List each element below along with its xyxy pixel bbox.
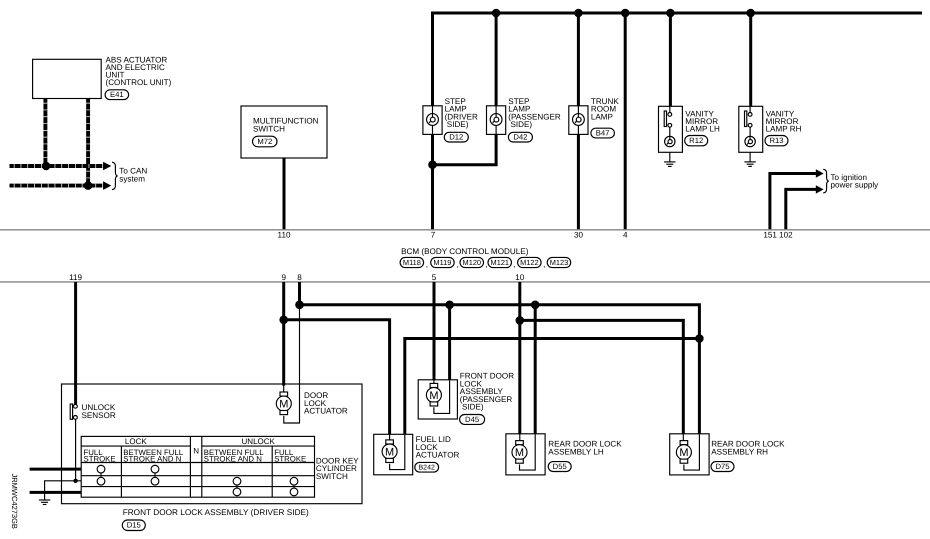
svg-text:D15: D15 — [127, 521, 141, 530]
door key cylinder switch label — [316, 456, 359, 480]
arrowhead ignition 2 — [816, 185, 824, 193]
connector D15 — [122, 520, 145, 531]
junction CAN-H — [42, 162, 51, 171]
connector E41 — [105, 90, 129, 100]
connector M121 — [488, 257, 512, 267]
svg-text:STROKE: STROKE — [274, 454, 306, 463]
svg-text:D12: D12 — [449, 133, 463, 142]
D45 label — [460, 372, 514, 412]
junction bus D42 — [492, 9, 501, 18]
wire pin 9 — [282, 282, 285, 386]
wire D45 return — [448, 305, 451, 380]
connector M72 — [253, 136, 278, 147]
wire trunk room lamp to pin 30 — [577, 13, 580, 230]
junction pin8 fuel-lid return — [695, 334, 704, 343]
D55 motor feed thin — [519, 434, 521, 441]
svg-text:5: 5 — [432, 273, 437, 282]
svg-text:JRMWC4273GB: JRMWC4273GB — [10, 474, 19, 529]
pin 8 common bus — [300, 305, 700, 434]
junction pin8 D45 — [445, 301, 454, 310]
connector D42 — [508, 132, 532, 142]
D55 motor return loop — [520, 434, 536, 470]
unlock sensor label — [82, 403, 116, 420]
svg-text:,: , — [543, 260, 545, 269]
rear door lock assembly LH box D55 — [506, 434, 545, 475]
connector B47 — [591, 128, 615, 138]
svg-text:SWITCH: SWITCH — [316, 472, 348, 481]
switch contacts — [97, 465, 298, 496]
wire pin 10 to D55 — [518, 282, 521, 434]
svg-text:R13: R13 — [769, 136, 783, 145]
junction bus R13 — [746, 9, 755, 18]
svg-text:,: , — [456, 260, 458, 269]
arrowhead ignition 1 — [816, 169, 824, 177]
D75 motor return loop — [684, 434, 700, 470]
unlock sensor wire down — [75, 419, 77, 481]
wire D55 return — [534, 305, 537, 434]
svg-text:STROKE AND N: STROKE AND N — [204, 454, 262, 463]
svg-text:FRONT DOOR LOCK ASSEMBLY (DRIV: FRONT DOOR LOCK ASSEMBLY (DRIVER SIDE) — [123, 508, 309, 517]
svg-text:SIDE): SIDE) — [447, 120, 469, 129]
svg-text:power supply: power supply — [831, 181, 880, 190]
D75 label — [711, 440, 785, 457]
D75 motor feed thin — [682, 434, 684, 441]
door lock actuator feed thin — [283, 385, 285, 392]
svg-text:119: 119 — [69, 273, 82, 282]
D45 motor return loop — [434, 380, 450, 413]
D45 motor feed thin — [433, 380, 435, 384]
svg-text:,: , — [486, 260, 488, 269]
svg-text:ASSEMBLY LH: ASSEMBLY LH — [548, 447, 604, 456]
connector M120 — [460, 257, 484, 267]
connector D12 — [444, 132, 468, 142]
brace To CAN — [112, 162, 118, 189]
ABS actuator and electric unit E41 box — [33, 59, 102, 98]
junction sensor/ground — [73, 479, 77, 483]
svg-text:SWITCH: SWITCH — [253, 125, 285, 134]
key switch stub wire row A — [30, 468, 82, 471]
svg-text:SIDE): SIDE) — [511, 120, 533, 129]
D75 motor — [676, 441, 691, 464]
connector M123 — [547, 257, 571, 267]
svg-text:9: 9 — [281, 273, 286, 282]
junction bus pin4 — [621, 9, 630, 18]
svg-text:ASSEMBLY RH: ASSEMBLY RH — [711, 447, 768, 456]
junction pin8 D55 — [531, 301, 540, 310]
svg-text:8: 8 — [297, 273, 302, 282]
connector D45 — [460, 415, 485, 425]
svg-text:M122: M122 — [520, 258, 539, 267]
svg-text:M: M — [385, 446, 394, 458]
junction bus B47 — [574, 9, 583, 18]
wire step lamp passenger D42 — [433, 13, 497, 165]
wire pin 119 to unlock sensor — [74, 282, 77, 404]
svg-text:M123: M123 — [550, 258, 569, 267]
R13 ground wire — [749, 152, 751, 162]
vanity mirror lamp RH R13 — [739, 106, 763, 152]
B242 motor feed thin — [389, 434, 391, 440]
connector B242 — [415, 462, 439, 472]
rear door lock assembly RH box D75 — [670, 434, 709, 475]
D55 motor — [512, 441, 527, 464]
wire vanity lamp LH R12 — [669, 13, 672, 106]
D55 label — [548, 440, 622, 457]
svg-text:STROKE AND N: STROKE AND N — [123, 454, 181, 463]
svg-text:,: , — [514, 260, 516, 269]
junction pin9 branch — [279, 316, 288, 325]
svg-text:LAMP LH: LAMP LH — [685, 125, 720, 134]
wire fuel lid return bus — [405, 339, 700, 435]
header between full stroke and n (lock) — [123, 448, 183, 463]
wire vanity lamp RH R13 — [749, 13, 752, 106]
front door lock assembly passenger box D45 — [418, 380, 457, 419]
wire pin 10 branch to D75 — [520, 320, 684, 433]
svg-text:B242: B242 — [419, 465, 435, 472]
svg-text:M: M — [429, 390, 438, 402]
svg-text:4: 4 — [623, 231, 628, 240]
svg-text:E41: E41 — [110, 90, 124, 99]
top supply bus wire — [433, 13, 923, 230]
svg-text:ACTUATOR: ACTUATOR — [304, 407, 348, 416]
svg-text:D75: D75 — [715, 462, 729, 471]
multifunction switch label — [253, 116, 319, 133]
svg-text:M: M — [279, 399, 288, 411]
ABS unit label — [106, 55, 172, 87]
To CAN system label — [119, 167, 147, 184]
svg-text:D45: D45 — [465, 415, 479, 424]
step lamp driver label — [445, 97, 478, 129]
wire pin 8 — [298, 282, 301, 305]
connector M118 — [400, 257, 424, 267]
ground R12 — [664, 162, 675, 167]
front door lock assembly driver side box D15 — [62, 384, 363, 504]
fuel lid lock actuator box B242 — [374, 434, 413, 475]
BCM bottom boundary line — [0, 281, 930, 283]
header full stroke (lock) — [84, 448, 116, 463]
svg-text:SENSOR: SENSOR — [82, 411, 116, 420]
svg-text:ACTUATOR: ACTUATOR — [416, 451, 460, 460]
ground branch wire — [45, 481, 82, 500]
svg-text:102: 102 — [779, 231, 793, 240]
svg-text:M72: M72 — [257, 137, 272, 146]
step lamp passenger side D42 — [487, 106, 506, 135]
B242 motor return loop — [390, 435, 405, 470]
connector M119 — [431, 257, 455, 267]
step lamp passenger label — [508, 97, 561, 129]
svg-text:SIDE): SIDE) — [462, 403, 484, 412]
svg-text:LOCK: LOCK — [125, 437, 147, 446]
door lock actuator label — [304, 391, 348, 415]
svg-text:LAMP: LAMP — [591, 112, 613, 121]
svg-text:system: system — [119, 175, 145, 184]
svg-text:M: M — [515, 447, 524, 459]
svg-text:N: N — [193, 447, 199, 456]
junction pin10 branch — [516, 316, 525, 325]
CAN-H arrowhead — [103, 162, 111, 171]
vanity mirror RH label — [766, 109, 802, 133]
svg-text:7: 7 — [431, 231, 436, 240]
wire pin 102 to ignition — [786, 189, 816, 229]
svg-text:D55: D55 — [553, 462, 567, 471]
connector D75 — [711, 462, 734, 472]
vanity mirror LH label — [685, 109, 720, 133]
vanity mirror lamp LH R12 — [659, 106, 683, 152]
To ignition power supply label — [831, 173, 880, 190]
svg-text:30: 30 — [574, 231, 584, 240]
CAN-L bus wire — [10, 184, 104, 188]
junction CAN-L — [84, 181, 93, 190]
svg-text:151: 151 — [763, 231, 777, 240]
junction D12/D42 — [428, 160, 437, 169]
svg-text:STROKE: STROKE — [84, 454, 116, 463]
multifunction switch M72 box — [241, 106, 327, 158]
wire bus to pin 4 — [624, 13, 627, 230]
trunk room lamp B47 — [569, 106, 588, 135]
door key cylinder switch table — [81, 436, 314, 497]
svg-text:10: 10 — [515, 273, 525, 282]
svg-text:M120: M120 — [463, 258, 482, 267]
svg-text:M118: M118 — [403, 258, 421, 267]
B242 motor — [382, 440, 397, 463]
svg-text:BCM (BODY CONTROL MODULE): BCM (BODY CONTROL MODULE) — [401, 247, 529, 256]
BCM top boundary line — [0, 229, 930, 231]
svg-text:M119: M119 — [433, 258, 451, 267]
CAN-L arrowhead — [103, 181, 111, 190]
svg-text:R12: R12 — [689, 136, 703, 145]
connector D55 — [548, 462, 571, 472]
header between full stroke and n (unlock) — [204, 448, 264, 463]
svg-text:D42: D42 — [513, 133, 527, 142]
CAN wire vertical 1 (dashed) — [43, 99, 47, 167]
svg-text:M: M — [679, 447, 688, 459]
key switch stub wire row C — [30, 491, 82, 494]
D45 motor — [426, 383, 441, 406]
door lock actuator driver — [276, 392, 291, 415]
door lock actuator return loop — [284, 306, 300, 424]
svg-text:B47: B47 — [596, 129, 610, 138]
CAN wire vertical 2 (dashed) — [86, 99, 90, 186]
connector R13 — [765, 136, 788, 146]
junction bus R12 — [666, 9, 675, 18]
ground R13 — [744, 162, 755, 167]
wire pin 5 to D45 — [433, 282, 436, 380]
svg-text:M121: M121 — [491, 258, 510, 267]
R12 ground wire — [669, 152, 671, 162]
junction pin8 — [295, 301, 304, 310]
wire pin 151 to ignition — [770, 174, 816, 230]
unlock sensor switch — [70, 404, 77, 419]
brace ignition — [823, 169, 829, 193]
svg-text:,: , — [426, 260, 428, 269]
B242 label — [416, 435, 460, 459]
svg-text:(CONTROL UNIT): (CONTROL UNIT) — [106, 78, 172, 87]
wire M72 to BCM pin 110 — [283, 158, 286, 230]
step lamp driver side D12 — [423, 106, 442, 135]
svg-text:UNLOCK: UNLOCK — [242, 437, 276, 446]
header full stroke (unlock) — [274, 448, 306, 463]
ground D15 — [39, 500, 50, 505]
svg-text:110: 110 — [278, 231, 291, 240]
connector R12 — [685, 136, 708, 146]
connector M122 — [518, 257, 542, 267]
svg-text:LAMP RH: LAMP RH — [766, 125, 802, 134]
CAN-H bus wire — [10, 164, 104, 168]
wire pin 9 branch to fuel lid actuator — [284, 320, 390, 435]
trunk room lamp label — [591, 97, 619, 121]
